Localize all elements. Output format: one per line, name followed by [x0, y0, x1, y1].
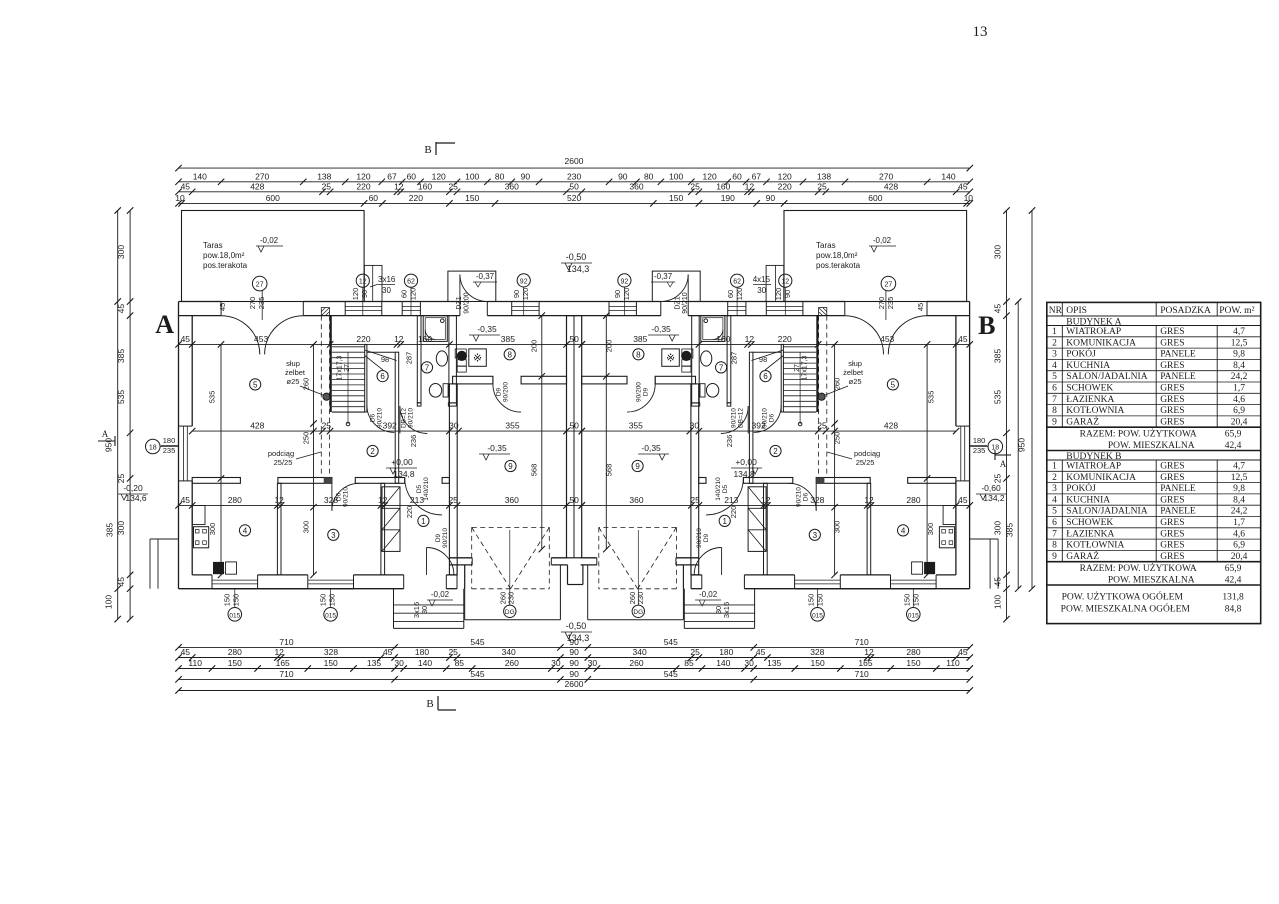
room circle 2 building A: [367, 445, 378, 456]
svg-text:4,6: 4,6: [1233, 529, 1245, 539]
svg-text:DG: DG: [505, 609, 515, 616]
svg-text:GRES: GRES: [1160, 417, 1184, 427]
bottom wall outer line under windows: [212, 588, 258, 590]
svg-text:45: 45: [958, 647, 968, 657]
building B chimney hatch in top wall: [819, 308, 827, 316]
svg-text:Taras: Taras: [816, 241, 836, 250]
svg-text:160: 160: [716, 334, 730, 344]
svg-text:GRES: GRES: [1160, 395, 1184, 405]
svg-text:270: 270: [255, 171, 269, 181]
building A kitchen bottom wall / garage top wall: [453, 376, 493, 384]
svg-text:67: 67: [387, 171, 397, 181]
building A room3/4 partition: [277, 483, 281, 575]
svg-text:SCHOWEK: SCHOWEK: [1066, 384, 1113, 394]
svg-text:015: 015: [908, 612, 919, 619]
section mark A left: [98, 440, 115, 442]
window 18 right wall: [956, 425, 970, 427]
top dim chain row4: [179, 202, 970, 204]
svg-text:230: 230: [636, 592, 645, 605]
svg-text:+0,00: +0,00: [735, 457, 757, 467]
svg-text:17x17,3: 17x17,3: [802, 355, 809, 380]
svg-text:65,9: 65,9: [1225, 430, 1242, 440]
room circle 4 building A: [239, 525, 250, 536]
building A chimney hatch in top wall: [321, 308, 329, 316]
svg-text:POW. MIESZKALNA OGÓŁEM: POW. MIESZKALNA OGÓŁEM: [1061, 602, 1191, 614]
svg-text:60: 60: [369, 193, 379, 203]
svg-text:2: 2: [773, 447, 778, 456]
svg-text:428: 428: [250, 181, 264, 191]
svg-text:710: 710: [279, 637, 293, 647]
svg-text:DZ1: DZ1: [675, 296, 682, 309]
party wall center seam: [573, 316, 575, 558]
terrace building A: [182, 211, 365, 302]
building A garage left wall: [449, 384, 457, 575]
svg-text:90: 90: [521, 171, 531, 181]
svg-text:90: 90: [569, 658, 579, 668]
left wall pavement lines: [149, 539, 151, 589]
building B bath partitions: [727, 316, 731, 403]
svg-text:GRES: GRES: [1160, 473, 1184, 483]
window 15 room3 A: [308, 579, 354, 581]
svg-text:355: 355: [505, 421, 519, 431]
svg-text:950: 950: [1017, 438, 1027, 452]
svg-text:9: 9: [635, 462, 640, 471]
building A toilet: [429, 384, 441, 398]
svg-text:220: 220: [778, 181, 792, 191]
building B beam dashed lines podciag: [826, 316, 828, 478]
svg-text:428: 428: [884, 181, 898, 191]
svg-text:1: 1: [1052, 462, 1057, 472]
svg-text:POW. MIESZKALNA: POW. MIESZKALNA: [1108, 441, 1195, 451]
svg-text:428: 428: [884, 421, 898, 431]
svg-text:328: 328: [810, 495, 824, 505]
window circle O92 A: [517, 274, 530, 287]
svg-text:27: 27: [885, 282, 893, 289]
svg-text:150: 150: [327, 594, 336, 607]
window circle 015 room3 A: [330, 589, 332, 608]
svg-text:9: 9: [1052, 417, 1057, 427]
svg-text:62: 62: [733, 279, 741, 286]
svg-text:-0,35: -0,35: [641, 443, 661, 453]
svg-text:2600: 2600: [565, 156, 584, 166]
svg-text:A: A: [155, 310, 174, 339]
svg-text:355: 355: [629, 421, 643, 431]
svg-text:545: 545: [664, 669, 678, 679]
window circle 015 room4 B: [912, 589, 914, 608]
svg-text:3x16: 3x16: [722, 602, 731, 618]
svg-text:220: 220: [729, 506, 738, 519]
room circle 2 building B: [770, 445, 781, 456]
building B garage door circle DG: [632, 605, 644, 617]
svg-text:85: 85: [684, 658, 694, 668]
svg-text:235: 235: [973, 446, 986, 455]
building A column slup zelbet: [323, 393, 330, 400]
building B kitchen stove: [939, 527, 954, 548]
svg-text:podciąg: podciąg: [268, 449, 294, 458]
svg-text:160: 160: [418, 181, 432, 191]
svg-text:150: 150: [223, 594, 232, 607]
svg-text:150: 150: [318, 594, 327, 607]
svg-text:30: 30: [714, 606, 723, 614]
svg-text:4: 4: [243, 526, 248, 535]
svg-text:45: 45: [958, 181, 968, 191]
building A room5/2 bottom wall segments: [192, 478, 240, 484]
building B boiler room fixtures: [682, 351, 691, 360]
svg-text:134,3: 134,3: [567, 633, 590, 643]
svg-text:PANELE: PANELE: [1160, 372, 1196, 382]
svg-text:GRES: GRES: [1160, 384, 1184, 394]
svg-text:25: 25: [817, 181, 827, 191]
svg-text:300: 300: [208, 523, 217, 536]
svg-text:-0,37: -0,37: [476, 272, 495, 281]
svg-text:pow.18,0m²: pow.18,0m²: [203, 251, 245, 260]
svg-text:25: 25: [322, 181, 332, 191]
svg-text:015: 015: [325, 612, 336, 619]
svg-text:4: 4: [1052, 361, 1057, 371]
svg-text:90: 90: [512, 290, 521, 298]
svg-text:1,7: 1,7: [1233, 518, 1245, 528]
svg-text:PANELE: PANELE: [1160, 350, 1196, 360]
svg-text:A: A: [102, 429, 109, 439]
svg-text:710: 710: [855, 637, 869, 647]
room circle 9 building B: [632, 460, 643, 471]
interior vertical chain x=313 A: [313, 344, 315, 575]
svg-text:45: 45: [218, 303, 227, 311]
svg-text:300: 300: [116, 521, 126, 535]
svg-text:190: 190: [721, 193, 735, 203]
svg-text:134,3: 134,3: [567, 264, 590, 274]
svg-text:8,4: 8,4: [1233, 495, 1245, 505]
building A shower: [423, 316, 447, 342]
svg-text:150: 150: [324, 658, 338, 668]
svg-text:25: 25: [116, 474, 126, 484]
svg-text:200: 200: [530, 340, 539, 353]
svg-text:150: 150: [807, 594, 816, 607]
svg-text:6: 6: [380, 372, 385, 381]
svg-text:360: 360: [629, 495, 643, 505]
room circle 3 building A: [328, 529, 339, 540]
svg-text:27: 27: [344, 364, 351, 372]
interior vertical chain x=221 A: [220, 344, 222, 575]
svg-text:-0,02: -0,02: [260, 236, 279, 245]
svg-text:220: 220: [356, 334, 370, 344]
svg-text:600: 600: [868, 193, 882, 203]
svg-text:GRES: GRES: [1160, 338, 1184, 348]
svg-text:B: B: [426, 698, 433, 710]
building A door D6 room6 arc: [367, 405, 394, 432]
center recess walls: [567, 565, 569, 585]
window O12 stairs B: [765, 302, 767, 316]
svg-text:POSADZKA: POSADZKA: [1160, 306, 1211, 316]
svg-text:4,7: 4,7: [1233, 462, 1245, 472]
svg-text:360: 360: [629, 181, 643, 191]
entrance canopy B: [652, 271, 700, 301]
building B stair direction line: [799, 352, 801, 424]
svg-text:ø25: ø25: [849, 377, 862, 386]
building B sink: [701, 351, 712, 366]
svg-text:300: 300: [301, 521, 310, 534]
building B entrance porch: [754, 589, 756, 629]
svg-text:25: 25: [690, 647, 700, 657]
svg-text:30: 30: [551, 658, 561, 668]
svg-text:-0,20: -0,20: [123, 483, 143, 493]
svg-text:6,9: 6,9: [1233, 541, 1245, 551]
svg-text:545: 545: [470, 669, 484, 679]
svg-text:60: 60: [726, 290, 735, 298]
bottom wall outer line: [179, 588, 404, 590]
svg-text:428: 428: [250, 421, 264, 431]
svg-text:90/210: 90/210: [377, 408, 384, 428]
svg-text:-0,35: -0,35: [487, 443, 507, 453]
svg-text:podciąg: podciąg: [854, 449, 880, 458]
room circle 6 building B: [760, 371, 771, 382]
svg-text:015: 015: [812, 612, 823, 619]
svg-text:※: ※: [666, 353, 675, 365]
svg-text:pos.terakota: pos.terakota: [816, 261, 861, 270]
room circle 8 building A: [504, 349, 515, 360]
svg-text:POW. MIESZKALNA: POW. MIESZKALNA: [1108, 575, 1195, 585]
svg-text:90: 90: [618, 171, 628, 181]
top wall jambs: [220, 302, 222, 316]
svg-text:250: 250: [301, 432, 310, 445]
svg-text:600: 600: [266, 193, 280, 203]
window O62 B: [727, 302, 729, 316]
svg-text:D6: D6: [803, 492, 810, 501]
svg-text:-0,35: -0,35: [651, 324, 671, 334]
svg-text:453: 453: [880, 334, 894, 344]
svg-text:30: 30: [744, 658, 754, 668]
svg-text:134,8: 134,8: [393, 469, 415, 479]
svg-text:150: 150: [669, 193, 683, 203]
building A bath bottom wall: [417, 403, 421, 406]
window circle 015 room3 B: [817, 589, 819, 608]
svg-text:360: 360: [505, 181, 519, 191]
interior vertical chain x=541 A: [541, 316, 543, 549]
building B column slup zelbet: [818, 393, 825, 400]
svg-text:GRES: GRES: [1160, 462, 1184, 472]
window 18 label left: [146, 439, 161, 454]
svg-text:50: 50: [569, 181, 579, 191]
svg-text:4,6: 4,6: [1233, 395, 1245, 405]
svg-text:131,8: 131,8: [1222, 592, 1244, 602]
room circle 5 building A: [250, 379, 261, 390]
svg-text:90/210: 90/210: [442, 528, 449, 548]
svg-text:250: 250: [833, 432, 842, 445]
svg-text:4,7: 4,7: [1233, 327, 1245, 337]
room circle 5 building B: [887, 379, 898, 390]
svg-text:235: 235: [257, 297, 266, 310]
svg-text:110: 110: [946, 658, 960, 668]
right dim line 950: [1017, 302, 1019, 589]
svg-text:KOTŁOWNIA: KOTŁOWNIA: [1066, 541, 1124, 551]
svg-text:GRES: GRES: [1160, 327, 1184, 337]
svg-text:1: 1: [722, 517, 727, 526]
svg-text:SALON/JADALNIA: SALON/JADALNIA: [1066, 372, 1147, 382]
svg-text:60: 60: [732, 171, 742, 181]
svg-text:DG: DG: [633, 609, 643, 616]
svg-text:25/25: 25/25: [274, 458, 293, 467]
svg-text:B: B: [424, 144, 431, 156]
top dim chain total 2600: [179, 167, 970, 169]
svg-text:NR: NR: [1049, 306, 1063, 316]
room circle 7 building B: [716, 362, 727, 373]
garage B front wall: [676, 557, 699, 559]
svg-text:62: 62: [407, 279, 415, 286]
back steps B 4x15/30: [766, 265, 784, 301]
svg-text:220: 220: [778, 334, 792, 344]
room circle 6 building A: [377, 371, 388, 382]
building B garage apron: [682, 565, 684, 620]
svg-text:100: 100: [993, 595, 1003, 609]
window circle 015 room4 A: [234, 589, 236, 608]
svg-text:92: 92: [621, 278, 629, 285]
svg-text:60: 60: [399, 290, 408, 298]
svg-text:535: 535: [993, 390, 1003, 404]
svg-text:260: 260: [629, 658, 643, 668]
bottom wall jambs: [211, 575, 213, 589]
building A door D9 kitchen-garage: [493, 384, 521, 412]
svg-text:85: 85: [455, 658, 465, 668]
svg-text:60: 60: [407, 171, 417, 181]
svg-text:45: 45: [181, 647, 191, 657]
svg-text:Taras: Taras: [203, 241, 223, 250]
svg-text:6: 6: [1052, 384, 1057, 394]
window 15 room3 B: [795, 579, 841, 581]
svg-text:13: 13: [973, 24, 988, 40]
svg-text:84,8: 84,8: [1225, 604, 1242, 614]
svg-text:710: 710: [279, 669, 293, 679]
svg-text:300: 300: [833, 521, 842, 534]
svg-text:220: 220: [356, 181, 370, 191]
interior chain y=344 A: [179, 343, 567, 345]
svg-text:180: 180: [973, 436, 986, 445]
svg-text:340: 340: [633, 647, 647, 657]
svg-text:45: 45: [181, 334, 191, 344]
building A entrance porch: [393, 589, 395, 629]
entrance canopy A: [448, 271, 496, 301]
svg-text:120: 120: [735, 288, 744, 301]
svg-text:18: 18: [149, 445, 157, 452]
svg-text:9: 9: [1052, 552, 1057, 562]
building A room1 partition 12: [381, 483, 385, 575]
svg-text:328: 328: [810, 647, 824, 657]
window 18 left wall: [179, 425, 193, 427]
building B room1 entrance door arc: [694, 548, 721, 575]
svg-text:385: 385: [116, 349, 126, 363]
bottom wall inner line: [192, 574, 212, 576]
svg-text:25: 25: [448, 495, 458, 505]
right dim outer line: [1031, 211, 1033, 589]
svg-text:D6: D6: [370, 413, 377, 422]
svg-text:1: 1: [421, 517, 426, 526]
svg-text:GRES: GRES: [1160, 406, 1184, 416]
svg-text:3: 3: [1052, 350, 1057, 360]
svg-text:950: 950: [104, 438, 114, 452]
svg-text:SCHOWEK: SCHOWEK: [1066, 518, 1113, 528]
building A chimney block: [382, 487, 400, 552]
svg-text:120: 120: [356, 171, 370, 181]
svg-text:-0,37: -0,37: [654, 272, 673, 281]
svg-text:385: 385: [105, 523, 115, 537]
svg-text:ŁAZIENKA: ŁAZIENKA: [1066, 529, 1114, 539]
svg-text:słup: słup: [848, 359, 862, 368]
svg-text:żelbet: żelbet: [843, 368, 864, 377]
svg-text:180: 180: [415, 647, 429, 657]
svg-text:-0,02: -0,02: [699, 590, 718, 599]
interior chain y=505 B: [582, 504, 970, 506]
window circle O92 B: [618, 274, 631, 287]
svg-text:135: 135: [767, 658, 781, 668]
svg-text:120: 120: [521, 288, 530, 301]
svg-text:7: 7: [1052, 529, 1057, 539]
svg-text:4x15: 4x15: [753, 275, 771, 284]
svg-text:8: 8: [1052, 406, 1057, 416]
svg-text:30: 30: [757, 286, 766, 295]
svg-text:6: 6: [1052, 518, 1057, 528]
svg-text:134,8: 134,8: [733, 469, 755, 479]
terrace door leader O27 B: [885, 291, 887, 320]
room circle 3 building B: [809, 529, 820, 540]
svg-text:45: 45: [181, 181, 191, 191]
building A door D6 to hall arc: [332, 483, 359, 510]
building B door D9 kitchen-garage: [627, 384, 655, 412]
svg-text:25: 25: [322, 421, 332, 431]
right dim line segments: [1006, 211, 1008, 620]
svg-text:12: 12: [359, 279, 367, 286]
svg-text:20,4: 20,4: [1231, 552, 1248, 562]
right outer wall: [969, 302, 971, 589]
building B door D6 to hall arc: [789, 483, 816, 510]
svg-text:220: 220: [405, 506, 414, 519]
building A door D5 140/210 to room1: [405, 478, 442, 515]
room circle 1 building A: [418, 515, 429, 526]
svg-text:D5: D5: [416, 484, 423, 493]
svg-text:50: 50: [569, 334, 579, 344]
svg-text:270: 270: [877, 297, 886, 310]
interior vertical chain x=313 B: [834, 344, 836, 575]
window O12 stairs A: [344, 302, 346, 316]
building B shower: [701, 316, 725, 342]
svg-text:-0,60: -0,60: [981, 483, 1001, 493]
svg-text:150: 150: [811, 658, 825, 668]
svg-text:POKÓJ: POKÓJ: [1066, 482, 1096, 494]
svg-text:90/210: 90/210: [696, 528, 703, 548]
svg-text:150: 150: [912, 594, 921, 607]
svg-text:90/210: 90/210: [731, 408, 738, 428]
svg-text:90/210: 90/210: [762, 408, 769, 428]
svg-text:98: 98: [759, 355, 767, 364]
svg-text:20,4: 20,4: [1231, 417, 1248, 427]
svg-text:100: 100: [669, 171, 683, 181]
svg-text:1,7: 1,7: [1233, 384, 1245, 394]
svg-text:150: 150: [906, 658, 920, 668]
building A boiler room fixtures: [457, 351, 466, 360]
svg-text:DB=12: DB=12: [738, 408, 745, 428]
svg-text:9,8: 9,8: [1233, 484, 1245, 494]
svg-text:90: 90: [569, 669, 579, 679]
building A stairs: [330, 316, 332, 412]
svg-text:360: 360: [505, 495, 519, 505]
terrace building B: [784, 211, 967, 302]
svg-text:9: 9: [508, 462, 513, 471]
building B door D5 140/210 to room1: [706, 478, 743, 515]
svg-text:340: 340: [502, 647, 516, 657]
svg-text:D5: D5: [722, 484, 729, 493]
svg-text:GRES: GRES: [1160, 495, 1184, 505]
building B garage left wall: [691, 384, 699, 575]
interior chain y=344 B: [582, 343, 970, 345]
top dim chain row3: [179, 191, 970, 193]
